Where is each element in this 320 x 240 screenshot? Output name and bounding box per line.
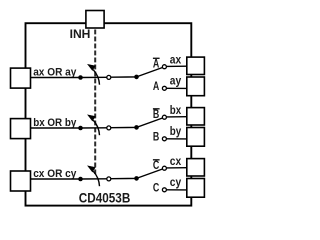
wire pole to contact a <box>81 76 107 78</box>
device outline box CD4053B <box>26 23 192 205</box>
overbar of Cbar <box>153 159 160 161</box>
overbar of Bbar <box>153 108 160 110</box>
contact circle C <box>162 188 166 192</box>
contact circle c <box>107 177 111 181</box>
contact circle Cbar <box>162 166 166 170</box>
svg-text:cy: cy <box>170 177 182 189</box>
contact circle Bbar <box>162 115 166 119</box>
wire contact to bend b <box>111 126 137 128</box>
svg-text:cx OR cy: cx OR cy <box>33 168 77 180</box>
node bend b <box>134 125 139 130</box>
terminal cx OR cy <box>11 171 31 191</box>
node pole a <box>78 75 83 80</box>
terminal ax OR ay <box>11 68 31 88</box>
svg-text:A: A <box>153 79 160 93</box>
svg-text:ay: ay <box>170 75 182 87</box>
svg-text:B: B <box>153 129 160 143</box>
wire bend to Cbar contact <box>137 169 163 178</box>
terminal bx OR by <box>11 119 31 139</box>
switch arrow c <box>88 166 95 172</box>
switch wiper arc c <box>93 171 99 186</box>
node bend c <box>134 176 139 181</box>
wire B to by terminal <box>167 138 187 140</box>
svg-text:ax: ax <box>170 54 182 66</box>
terminal cy <box>187 179 205 198</box>
contact circle A <box>162 86 166 90</box>
switch arrow b <box>88 115 95 121</box>
contact circle b <box>107 126 111 130</box>
wire Cbar to cx terminal <box>167 167 187 169</box>
wire pole to contact b <box>81 127 107 129</box>
terminal ay <box>187 77 205 96</box>
node pole b <box>78 126 83 131</box>
wire contact to bend a <box>111 76 137 78</box>
contact circle B <box>162 137 166 141</box>
svg-text:C: C <box>153 180 160 194</box>
svg-text:ax OR ay: ax OR ay <box>33 66 77 78</box>
svg-text:by: by <box>170 126 182 138</box>
terminal ax <box>187 57 205 74</box>
terminal cx <box>187 159 205 176</box>
wire Bbar to bx terminal <box>167 116 187 118</box>
wire C to cy terminal <box>167 189 187 191</box>
switch wiper arc b <box>93 120 99 135</box>
wire pole to contact c <box>81 178 107 180</box>
switch arrow a <box>88 64 95 70</box>
wire Abar to ax terminal <box>167 65 187 67</box>
svg-text:INH: INH <box>70 29 91 41</box>
wire A to ay terminal <box>167 87 187 89</box>
wire contact to bend c <box>111 177 137 179</box>
svg-text:cx: cx <box>170 156 182 168</box>
switch wiper arc a <box>93 70 99 85</box>
svg-text:bx OR by: bx OR by <box>33 117 77 129</box>
terminal by <box>187 128 205 147</box>
contact circle a <box>107 75 111 79</box>
wire common c <box>31 178 81 180</box>
wire common a <box>31 77 81 79</box>
svg-text:bx: bx <box>170 105 182 117</box>
INH control dashed line <box>94 30 96 175</box>
wire bend to Bbar contact <box>137 118 163 127</box>
node pole c <box>78 177 83 182</box>
overbar of Abar <box>153 57 160 59</box>
contact circle Abar <box>162 65 166 69</box>
svg-text:CD4053B: CD4053B <box>79 190 131 205</box>
wire bend to Abar contact <box>137 68 163 77</box>
terminal INH <box>86 11 104 29</box>
terminal bx <box>187 108 205 125</box>
node bend a <box>134 75 139 80</box>
wire common b <box>31 127 81 129</box>
